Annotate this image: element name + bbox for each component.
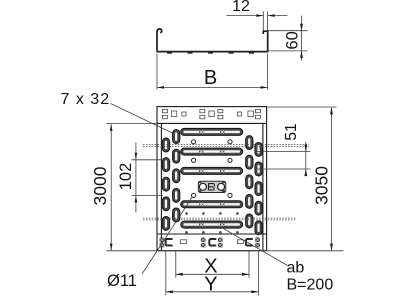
long slot row 5 <box>181 221 243 228</box>
svg-text:ab: ab <box>287 260 305 277</box>
svg-text:Ø11: Ø11 <box>107 272 137 290</box>
svg-text:102: 102 <box>117 163 135 191</box>
dim Y label <box>204 274 217 296</box>
top band small hole 1 <box>182 112 186 116</box>
channel left wall with rolled lip <box>157 29 162 51</box>
tray body outline <box>157 107 267 251</box>
top coupler band separator <box>157 122 267 124</box>
right inner oval slot 3 <box>246 175 253 189</box>
dim 60 arrow bottom <box>300 51 303 58</box>
right inner oval slot 1 <box>246 136 253 150</box>
dim 51 arrow top <box>304 145 307 152</box>
top band hole pair 1 <box>162 109 167 119</box>
dim 60 dimension line <box>301 16 303 61</box>
OBO stamp corner tabs <box>199 181 226 192</box>
dim 102 arrow bottom <box>135 195 138 202</box>
long slot row 3 <box>181 167 243 174</box>
svg-text:B=200: B=200 <box>287 277 334 294</box>
dim 3000 top extension line <box>106 122 157 124</box>
dim 102 label <box>117 163 135 191</box>
chain line lower <box>143 218 296 220</box>
right outer oval slot 1 <box>255 142 262 156</box>
svg-text:Y: Y <box>204 274 217 296</box>
dim 3050 arrow bottom <box>330 244 333 251</box>
rivet dot row 2 <box>185 231 238 233</box>
dim 3000 label <box>90 166 110 205</box>
svg-text:51: 51 <box>283 123 300 140</box>
dim 3050 top extension line <box>267 106 337 108</box>
dim B arrow left <box>157 86 164 89</box>
dim X arrow left <box>176 273 183 276</box>
chain line upper <box>143 145 309 147</box>
dim 3000 arrow top <box>110 124 113 131</box>
channel bottom perforation ticks <box>167 52 254 53</box>
dim 51 dimension line <box>305 142 307 177</box>
dim X label <box>204 256 217 278</box>
right outer oval slot 5 <box>255 221 262 235</box>
tray left inner rail line <box>160 123 162 250</box>
right outer oval slot 3 <box>255 182 262 196</box>
dim Y extension lines <box>166 251 259 295</box>
left outer oval slot 5 <box>162 216 169 230</box>
bottom band C-bracket right <box>246 239 253 246</box>
bottom band C-bracket left <box>166 239 173 246</box>
label diameter 11 <box>107 272 137 290</box>
bottom shared extension line <box>106 250 343 252</box>
left inner oval slot 2 <box>173 149 180 163</box>
dim X extension lines <box>176 251 249 278</box>
right outer oval slot 2 <box>255 162 262 176</box>
svg-text:3050: 3050 <box>312 166 332 205</box>
dim 60 label <box>284 31 302 49</box>
top band square hole 2 <box>209 111 214 117</box>
top band square hole 1 <box>171 111 176 117</box>
top band hole pair 4 <box>255 109 260 119</box>
svg-text:B: B <box>204 67 217 89</box>
channel bottom (section) <box>157 51 269 53</box>
dim 12 arrow left <box>256 14 263 17</box>
long slot row 4 <box>181 201 243 208</box>
dim 102 dimension line <box>135 143 137 213</box>
dim 51 arrow bottom <box>304 169 307 176</box>
bottom band slot hole right <box>237 240 243 244</box>
OBO stamp right ring <box>218 183 225 190</box>
dim B label <box>204 67 217 89</box>
left inner oval slot 1 <box>173 130 180 144</box>
dim Y arrow left <box>166 290 173 293</box>
top band hole pair 2 <box>200 109 205 119</box>
rivet dot row 1 <box>185 212 238 214</box>
left outer oval slot 1 <box>162 138 169 152</box>
dim 51 extension lines <box>255 152 310 169</box>
leader 7 x 32 to oval slot <box>111 104 174 134</box>
dim 3050 dimension line <box>331 108 333 251</box>
leader diameter 11 to round hole <box>142 197 193 275</box>
bottom band riveted pair right <box>255 238 259 248</box>
left inner oval slot 4 <box>173 188 180 202</box>
top band square hole 3 <box>248 111 253 117</box>
OBO stamp left ring <box>199 183 206 190</box>
left outer oval slot 4 <box>162 197 169 211</box>
dim B arrow right <box>261 86 268 89</box>
bottom coupler band separator <box>157 233 267 235</box>
long slot row 1 <box>181 128 243 135</box>
leader ab to slot <box>223 228 288 265</box>
left inner oval slot 3 <box>173 169 180 183</box>
channel right wall with lip <box>263 31 267 51</box>
bottom band riveted pair left <box>160 238 165 248</box>
dim X dimension line <box>176 273 249 275</box>
top band small hole 2 <box>237 112 241 116</box>
dim Y arrow right <box>251 290 258 293</box>
dim 3000 dimension line <box>110 124 112 250</box>
long slot row 2 <box>181 148 243 155</box>
dim B dimension line <box>157 86 268 88</box>
dim 12 arrow right <box>268 14 275 17</box>
svg-text:60: 60 <box>284 31 302 49</box>
label ab B=200 <box>287 260 334 294</box>
right inner oval slot 4 <box>246 194 253 208</box>
dim 12 dimension line <box>227 15 288 17</box>
dim X arrow right <box>242 273 249 276</box>
label 7 x 32 <box>61 91 111 108</box>
left outer oval slot 2 <box>162 158 169 172</box>
left outer oval slot 3 <box>162 177 169 191</box>
svg-text:12: 12 <box>232 0 250 15</box>
dim 3050 label <box>312 166 332 205</box>
round hole pair row 1 <box>192 140 233 144</box>
tray right inner rail line <box>262 123 264 250</box>
dim 60 extension lines <box>268 31 308 51</box>
dim 3050 arrow top <box>330 107 333 114</box>
dim 51 label <box>283 123 300 140</box>
dim 12 label <box>232 0 250 15</box>
svg-text:3000: 3000 <box>90 166 110 205</box>
right inner oval slot 5 <box>246 214 253 228</box>
dim B extension lines <box>157 54 268 90</box>
dim 3000 arrow bottom <box>110 244 113 251</box>
right inner oval slot 2 <box>246 155 253 169</box>
dim 12 extension lines <box>263 11 267 30</box>
left inner oval slot 5 <box>173 208 180 222</box>
bottom band slot hole left <box>180 240 186 244</box>
OBO stamp letter B <box>209 183 215 190</box>
dim 102 arrow top <box>135 153 138 160</box>
bottom band C-bracket middle <box>209 239 216 246</box>
OBO logo stamp plate <box>198 181 226 192</box>
dim 60 arrow top <box>300 24 303 31</box>
top band hole pair 3 <box>218 109 223 119</box>
dim 102 extension lines <box>132 160 164 196</box>
round hole pair row 3 <box>192 193 233 197</box>
right outer oval slot 4 <box>255 201 262 215</box>
svg-text:7 x 32: 7 x 32 <box>61 91 111 108</box>
dim Y dimension line <box>166 291 259 293</box>
bottom band riveted pair mid-right <box>218 238 223 248</box>
round hole pair row 2 <box>192 158 233 162</box>
bottom band riveted pair mid-left <box>201 238 206 248</box>
